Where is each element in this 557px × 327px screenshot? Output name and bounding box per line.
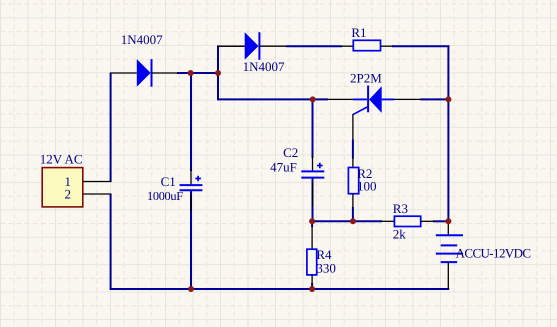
plus sign (317, 163, 323, 169)
diode D1 1N4007 (110, 32, 178, 87)
capacitor C2 47uF (270, 145, 324, 206)
wire top row from node B to diode D2 anode (217, 45, 245, 47)
wire C2 branch upper (SCR row down to C2) (312, 99, 314, 158)
junction node battery plus (445, 218, 451, 224)
svg-text:R1: R1 (351, 25, 366, 40)
svg-text:C2: C2 (283, 145, 298, 160)
junction node A (D1 cathode / C1) (188, 70, 194, 76)
battery BT1 ACCU-12VDC (436, 220, 531, 290)
svg-text:12V AC: 12V AC (40, 151, 83, 166)
wire from SCR anode to right rail (420, 98, 448, 100)
junction node bottom rail R4 (309, 286, 315, 292)
junction node B (rectifier output) (215, 70, 221, 76)
svg-text:330: 330 (316, 261, 336, 276)
wire C2 branch lower (C2 to mid rail) (312, 179, 314, 222)
wire from R2 to mid rail (352, 207, 354, 221)
svg-text:2k: 2k (393, 226, 407, 241)
wire right rail vertical (447, 45, 449, 221)
pin 1 stub (83, 181, 112, 183)
svg-text:2P2M: 2P2M (350, 71, 382, 86)
capacitor C1 1000uF (147, 169, 202, 211)
wire node B vertical (top row to SCR row) (217, 45, 219, 100)
wire from diode D1 cathode to node B (horizontal) (177, 72, 219, 74)
junction node bottom rail C1 (188, 286, 194, 292)
svg-text:47uF: 47uF (270, 160, 297, 175)
wire C1 branch lower (C1 to bottom rail) (190, 191, 192, 290)
svg-text:C1: C1 (161, 174, 176, 189)
wire from connector pin 1 up to diode D1 (vertical) (110, 73, 112, 182)
gate lead (353, 107, 368, 115)
pin 2 stub (83, 193, 112, 195)
resistor R1 (341, 25, 393, 51)
wire from R3 to battery node (433, 220, 448, 222)
wire from connector pin 2 down to bottom rail (vertical) (110, 194, 112, 290)
wire R4 branch lower (311, 283, 313, 289)
resistor R4 (307, 226, 336, 284)
wire bottom rail (110, 288, 450, 290)
svg-text:1000uF: 1000uF (147, 189, 183, 203)
plus sign (195, 176, 201, 182)
junction node mid rail left (C2/R4) (309, 218, 315, 224)
svg-text:1N4007: 1N4007 (121, 32, 163, 47)
wire from resistor R1 to right rail corner (392, 45, 449, 47)
wire R4 branch upper (311, 221, 313, 227)
resistor R2 (348, 157, 376, 208)
svg-text:1N4007: 1N4007 (243, 59, 285, 74)
junction node SCR anode / right rail (445, 96, 451, 102)
svg-text:2: 2 (65, 187, 72, 202)
resistor R3 (381, 201, 434, 241)
connector J1 12V AC (40, 151, 112, 207)
wire mid rail (C2/R2 node to R3) (313, 220, 383, 222)
wire C1 branch upper (from node A down to C1) (190, 73, 192, 171)
junction node mid rail centre (R2) (350, 218, 356, 224)
svg-text:ACCU-12VDC: ACCU-12VDC (456, 246, 531, 261)
thyristor Q1 2P2M (327, 71, 420, 140)
wire gate net from SCR gate down to R2 (352, 140, 354, 159)
junction node C2 top (SCR row) (310, 96, 316, 102)
svg-text:R3: R3 (393, 201, 408, 216)
wire from diode D2 cathode to resistor R1 (286, 45, 342, 47)
diode D2 1N4007 (218, 32, 287, 74)
svg-text:100: 100 (357, 178, 377, 193)
wire SCR row from node B corner to SCR cathode pin (218, 98, 328, 100)
